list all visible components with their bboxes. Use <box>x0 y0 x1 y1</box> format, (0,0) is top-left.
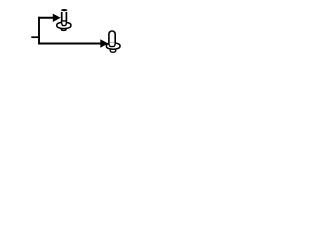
bolt icon 2 (bottom) <box>106 31 120 52</box>
head cap (top bolt) <box>61 9 67 11</box>
washer capsule (bottom bolt) <box>106 43 120 49</box>
cylinder skirt cup (top bolt) <box>62 21 67 26</box>
wire: bottom branch <box>38 43 101 45</box>
wire: left stub <box>31 36 40 38</box>
wire: vertical bus <box>38 17 40 45</box>
wire: top branch <box>38 17 53 19</box>
bottom tip ellipse (top bolt) <box>61 29 66 31</box>
arrowhead bottom <box>100 39 108 47</box>
cylinder skirt cup (bottom bolt) <box>109 42 115 47</box>
bottom tip ellipse (bottom bolt) <box>110 49 116 52</box>
washer capsule (top bolt) <box>57 22 71 28</box>
cylinder body with dome top (bottom bolt) <box>109 31 115 42</box>
bolt icon 1 (top) <box>57 9 71 31</box>
arrowhead top <box>53 14 61 22</box>
cylinder body with dome top (top bolt) <box>62 12 67 21</box>
